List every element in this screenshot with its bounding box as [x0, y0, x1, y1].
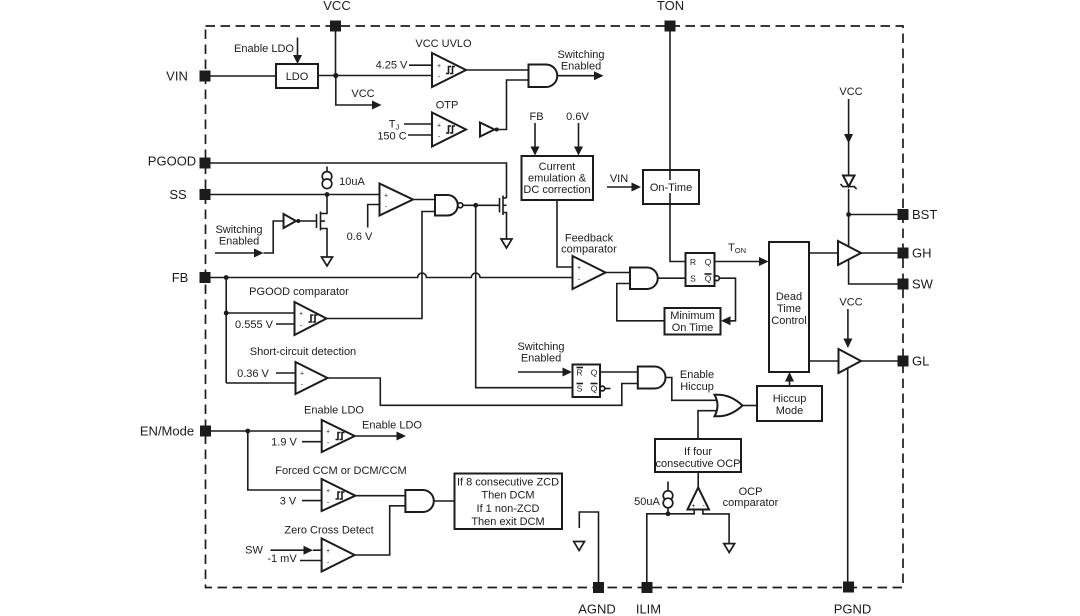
- node BST junction: [846, 212, 851, 217]
- wire current-emu output to feedback comparator +: [557, 200, 573, 267]
- wire junction to OCP + input: [668, 510, 694, 514]
- svg-text:Enable LDO: Enable LDO: [362, 420, 422, 432]
- wire GH driver to GH pin: [861, 252, 898, 254]
- svg-text:Forced CCM or DCM/CCM: Forced CCM or DCM/CCM: [275, 465, 406, 477]
- svg-text:Minimum: Minimum: [670, 310, 715, 322]
- svg-text:DC correction: DC correction: [523, 184, 590, 196]
- wire EN junction down to CCM comparator: [248, 431, 322, 490]
- wire FB pin rail with hops: [211, 273, 573, 277]
- svg-text:+: +: [437, 63, 441, 70]
- svg-text:1.9 V: 1.9 V: [271, 437, 297, 449]
- wire AND output arrow (Switching Enabled): [557, 75, 594, 77]
- svg-text:Enabled: Enabled: [219, 236, 259, 248]
- RS latch U3 (hiccup): [573, 365, 601, 398]
- LDO regulator U1: [276, 64, 318, 88]
- svg-text:Mode: Mode: [776, 405, 804, 417]
- wire to BST pin: [849, 214, 898, 216]
- block On-Time: [643, 170, 699, 204]
- block If 8 consecutive ZCD: [455, 474, 563, 530]
- pin FB (left): [200, 272, 211, 283]
- wire 1.9V to - input: [302, 441, 322, 443]
- block Current emulation & DC correction: [522, 156, 594, 200]
- wire enable-LDO arrow into LDO: [297, 38, 299, 56]
- pin AGND (bottom): [593, 582, 604, 593]
- transistor M1 (SS discharge): [296, 220, 317, 222]
- wire NAND junction down to hiccup latch S: [476, 205, 573, 387]
- node SS junction: [325, 192, 330, 197]
- svg-text:On Time: On Time: [672, 322, 714, 334]
- node buffer out: [296, 219, 300, 223]
- svg-text:-1 mV: -1 mV: [267, 553, 297, 565]
- svg-text:50uA: 50uA: [634, 496, 660, 508]
- wire FB down to comparators: [225, 278, 227, 384]
- svg-text:AGND: AGND: [578, 602, 616, 616]
- node latch Qbar bubble: [715, 276, 720, 281]
- svg-text:3 V: 3 V: [280, 496, 297, 508]
- svg-text:+: +: [300, 371, 304, 378]
- svg-text:Dead: Dead: [776, 291, 802, 303]
- svg-text:VCC: VCC: [839, 86, 862, 98]
- wire VCC down to zener: [848, 99, 850, 175]
- wire SW sense: [849, 260, 898, 285]
- wire AND to ZCD box: [434, 500, 455, 502]
- svg-text:Switching: Switching: [557, 49, 604, 61]
- svg-text:If 1 non-ZCD: If 1 non-ZCD: [477, 503, 540, 515]
- pin VIN (left): [200, 71, 211, 82]
- ground (M2): [501, 239, 512, 248]
- AND gate switching-enabled: [529, 65, 558, 88]
- wire VIN arrow into On-Time: [607, 186, 632, 188]
- pin EN/Mode (left): [200, 426, 211, 437]
- OR gate hiccup: [715, 395, 743, 417]
- svg-text:Enable: Enable: [680, 369, 714, 381]
- wire SS pin to comparator: [211, 194, 380, 196]
- wire Enable LDO output arrow: [355, 435, 397, 437]
- svg-text:If 8 consecutive ZCD: If 8 consecutive ZCD: [457, 477, 559, 489]
- buffer GL driver: [839, 349, 862, 373]
- wire PGOOD comparator output to NAND lower input: [327, 212, 436, 319]
- svg-text:Q: Q: [591, 368, 598, 378]
- svg-text:Q: Q: [705, 257, 712, 267]
- wire junction to ILIM pin: [647, 514, 668, 582]
- pin SW (right): [898, 279, 909, 290]
- svg-text:Switching: Switching: [215, 224, 262, 236]
- wire OR to hiccup mode: [743, 405, 758, 407]
- pin VCC (top): [330, 21, 341, 32]
- wire VCC arrow to GL driver: [847, 309, 849, 339]
- svg-text:Q: Q: [591, 384, 598, 394]
- block Dead Time Control: [769, 242, 809, 372]
- comparator zero cross detect: [322, 539, 355, 572]
- wire -1mV to - input: [300, 560, 322, 562]
- wire comparator to NAND: [413, 199, 435, 201]
- comparator VCC UVLO: [432, 53, 466, 87]
- pin GH (right): [898, 248, 909, 259]
- node FB junction: [224, 275, 229, 280]
- NAND gate: [435, 195, 458, 216]
- svg-text:PGOOD comparator: PGOOD comparator: [249, 286, 349, 298]
- transistor M2 (COMP discharge): [499, 198, 501, 213]
- wire AGND ground branch: [579, 512, 598, 582]
- svg-text:If four: If four: [684, 446, 712, 458]
- pin PGOOD (left): [200, 158, 211, 169]
- buffer GH driver: [838, 241, 861, 265]
- wire OCP - input to ground: [703, 510, 729, 544]
- svg-text:S: S: [577, 384, 583, 394]
- wire UVLO output to AND: [466, 69, 529, 71]
- svg-text:+: +: [326, 548, 330, 555]
- svg-text:VCC: VCC: [323, 0, 350, 13]
- comparator PGOOD: [295, 302, 327, 335]
- wire FB arrow into box: [534, 123, 536, 147]
- svg-text:+: +: [326, 429, 330, 436]
- node latch2 Qbar bubble and stub: [600, 386, 605, 391]
- svg-text:FB: FB: [529, 111, 543, 123]
- buffer SS discharge: [284, 214, 297, 228]
- wire 4.25V to + input: [409, 64, 432, 66]
- pin GL (right): [898, 356, 909, 367]
- svg-text:OTP: OTP: [436, 100, 459, 112]
- node ILIM junction: [666, 511, 671, 516]
- svg-text:+: +: [437, 123, 441, 130]
- AND gate hiccup-enable: [638, 367, 666, 389]
- wire latch2 Q to AND: [600, 371, 638, 373]
- wire VCC pin to rail: [335, 32, 337, 76]
- wire comparator to AND: [606, 272, 631, 274]
- svg-text:Enable LDO: Enable LDO: [304, 405, 364, 417]
- buffer after OTP: [480, 123, 495, 137]
- svg-text:Current: Current: [539, 161, 576, 173]
- svg-text:BST: BST: [912, 207, 937, 222]
- svg-text:VIN: VIN: [610, 173, 628, 185]
- svg-text:SW: SW: [912, 277, 934, 292]
- svg-text:Enabled: Enabled: [521, 353, 561, 365]
- node PGOOD comparator tap: [224, 311, 229, 316]
- svg-text:SS: SS: [169, 187, 187, 202]
- svg-text:Enabled: Enabled: [561, 61, 601, 73]
- svg-text:S: S: [690, 274, 696, 284]
- node VCC rail junction: [333, 73, 338, 78]
- svg-text:comparator: comparator: [561, 244, 617, 256]
- chip boundary (dashed): [206, 26, 904, 588]
- svg-text:ILIM: ILIM: [636, 602, 661, 616]
- svg-text:Then DCM: Then DCM: [481, 490, 534, 502]
- wire SW arrow to + input: [271, 549, 305, 551]
- wire 0.6V elbow: [368, 205, 380, 228]
- svg-text:R: R: [576, 368, 582, 378]
- wire 0.6V arrow into box: [578, 123, 580, 147]
- svg-text:Hiccup: Hiccup: [680, 381, 714, 393]
- ground (OCP): [724, 544, 735, 553]
- svg-text:R: R: [690, 257, 696, 267]
- pin PGND (bottom): [843, 582, 854, 593]
- svg-text:Control: Control: [771, 315, 806, 327]
- pin TON (top): [665, 21, 676, 32]
- wire zener to BST junction and GH driver: [848, 189, 850, 248]
- svg-text:consecutive OCP: consecutive OCP: [656, 458, 741, 470]
- pin BST (right): [898, 209, 909, 220]
- pin SS (left): [200, 189, 211, 200]
- wire NAND output to MOSFET gate: [463, 204, 500, 206]
- AND gate before latch: [630, 268, 658, 290]
- svg-text:Hiccup: Hiccup: [773, 393, 807, 405]
- svg-text:0.6 V: 0.6 V: [347, 231, 373, 243]
- svg-text:150 C: 150 C: [377, 131, 406, 143]
- svg-text:+: +: [691, 503, 695, 510]
- comparator OCP: [688, 488, 710, 510]
- svg-text:LDO: LDO: [286, 71, 309, 83]
- wire OCP box to OR lower input: [698, 411, 717, 439]
- node buffer output: [495, 128, 499, 132]
- wire PGOOD pin to discharge MOSFET drain: [211, 163, 507, 198]
- svg-text:+: +: [384, 193, 388, 200]
- svg-text:GH: GH: [912, 246, 932, 261]
- wire Qbar to minimum-on-time: [719, 278, 735, 321]
- current source 50uA: [667, 482, 669, 491]
- AND gate DCM logic: [405, 490, 433, 512]
- svg-text:VIN: VIN: [166, 69, 188, 84]
- wire GL driver to GL pin: [861, 360, 898, 362]
- svg-text:FB: FB: [172, 270, 189, 285]
- svg-text:10uA: 10uA: [339, 176, 365, 188]
- wire CCM comparator to AND: [355, 495, 405, 497]
- wire AND to S input: [658, 277, 686, 279]
- block Hiccup Mode: [757, 386, 822, 421]
- svg-text:Zero Cross Detect: Zero Cross Detect: [284, 525, 373, 537]
- wire 0.555V to - input: [276, 323, 295, 325]
- wire AND output to OR: [666, 378, 717, 401]
- wire current source to junction: [667, 508, 669, 514]
- comparator SS/0.6V: [380, 184, 414, 216]
- wire hiccup to DTC arrow: [789, 380, 791, 386]
- wire GL driver to PGND: [847, 368, 849, 583]
- wire LDO output rail: [318, 75, 432, 77]
- comparator short-circuit: [296, 362, 328, 394]
- wire TON pin down through On-Time to latch R: [670, 32, 686, 262]
- svg-text:TON: TON: [657, 0, 684, 13]
- block If four consecutive OCP: [655, 439, 741, 472]
- svg-text:SW: SW: [245, 545, 263, 557]
- svg-text:+: +: [326, 488, 330, 495]
- wire 150C to - input: [408, 134, 432, 136]
- svg-text:Time: Time: [777, 303, 801, 315]
- svg-text:VCC: VCC: [351, 88, 374, 100]
- svg-text:emulation &: emulation &: [528, 173, 587, 185]
- wire tap to PGOOD comparator +: [226, 312, 294, 314]
- wire DTC to GH driver: [809, 252, 838, 254]
- comparator Enable LDO: [322, 420, 355, 452]
- svg-text:GL: GL: [912, 354, 929, 369]
- diode zener D1: [843, 176, 855, 187]
- svg-text:VCC UVLO: VCC UVLO: [415, 38, 472, 50]
- svg-text:Switching: Switching: [517, 341, 564, 353]
- current source 10uA: [326, 167, 328, 172]
- svg-text:On-Time: On-Time: [650, 182, 692, 194]
- ground (AGND): [574, 542, 585, 551]
- svg-text:0.555 V: 0.555 V: [235, 319, 274, 331]
- wire switching-enabled arrow to Rbar: [518, 371, 563, 373]
- svg-text:VCC: VCC: [839, 297, 862, 309]
- RS latch U2: [686, 253, 715, 286]
- wire 3V to - input: [302, 500, 322, 502]
- wire TJ to + input: [404, 123, 432, 125]
- svg-text:+: +: [577, 265, 581, 272]
- wire min-on-time feedback to AND lower input: [617, 284, 665, 321]
- wire ZCD output to AND lower input: [355, 506, 406, 555]
- wire FB to SC comparator -: [226, 382, 295, 384]
- comparator forced CCM: [322, 479, 356, 511]
- svg-text:Then exit DCM: Then exit DCM: [471, 516, 544, 528]
- wire DTC to GL driver: [809, 360, 839, 362]
- svg-text:0.36 V: 0.36 V: [237, 368, 269, 380]
- svg-text:PGND: PGND: [834, 602, 872, 616]
- block Minimum On Time: [665, 308, 721, 335]
- node EN junction: [245, 429, 250, 434]
- wire VCC tap arrow: [336, 76, 373, 106]
- svg-text:Q: Q: [705, 274, 712, 284]
- node NAND output junction: [473, 203, 478, 208]
- wire switching-enabled arrow to buffer: [215, 252, 255, 254]
- svg-text:comparator: comparator: [723, 497, 779, 509]
- svg-text:PGOOD: PGOOD: [148, 154, 196, 169]
- wire Q to dead time control: [715, 261, 760, 263]
- wire OTP buffer to AND lower input: [495, 80, 529, 130]
- svg-text:Short-circuit detection: Short-circuit detection: [250, 346, 356, 358]
- pin ILIM (bottom): [642, 582, 653, 593]
- svg-text:0.6V: 0.6V: [566, 111, 589, 123]
- comparator OTP: [432, 113, 466, 147]
- wire EN/Mode pin to comparator: [211, 430, 322, 432]
- svg-text:4.25 V: 4.25 V: [376, 60, 408, 72]
- wire VIN to LDO: [211, 75, 277, 77]
- comparator feedback: [573, 256, 606, 289]
- svg-text:Enable LDO: Enable LDO: [234, 43, 294, 55]
- svg-text:EN/Mode: EN/Mode: [140, 424, 194, 439]
- svg-text:+: +: [299, 311, 303, 318]
- wire SC output to hiccup AND: [328, 378, 638, 405]
- ground (SS): [322, 257, 333, 266]
- wire OCP comparator to box: [697, 472, 699, 488]
- wire 0.36V to + input: [276, 372, 296, 374]
